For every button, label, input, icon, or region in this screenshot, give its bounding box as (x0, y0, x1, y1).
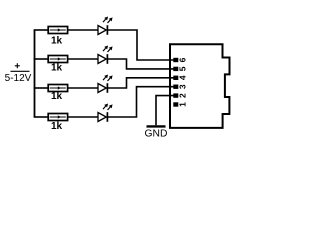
svg-text:5-12V: 5-12V (5, 73, 32, 84)
wire R4 to D4 (68, 116, 99, 118)
wire D3 to pin 4 (107, 78, 174, 88)
svg-text:2: 2 (177, 93, 187, 98)
pin 1 (173, 102, 178, 106)
svg-text:6: 6 (177, 57, 187, 62)
svg-text:4: 4 (177, 75, 187, 80)
node + supply label (11, 63, 30, 71)
svg-text:GND: GND (145, 129, 168, 140)
ground (147, 125, 166, 127)
wire bus to R1 (34, 29, 49, 31)
wire D4 to pin 3 (107, 87, 174, 117)
node +V bus (34, 30, 36, 117)
svg-text:1k: 1k (51, 36, 63, 47)
wire D2 to pin 5 (107, 59, 174, 69)
resistor R4 (48, 114, 67, 121)
svg-text:1k: 1k (51, 121, 63, 132)
pin 2 (173, 93, 178, 97)
wire R1 to D1 (68, 29, 99, 31)
LED D3 (98, 74, 113, 92)
connector J1 outline (170, 44, 230, 128)
svg-text:1k: 1k (51, 91, 63, 102)
wire D1 to pin 6 (107, 30, 174, 60)
svg-text:3: 3 (177, 84, 187, 89)
LED D4 (98, 103, 113, 121)
pin 3 (173, 85, 178, 89)
svg-text:5: 5 (177, 66, 187, 71)
LED D1 (98, 16, 113, 34)
wire bus to R3 (34, 87, 49, 89)
wire R3 to D3 (68, 87, 99, 89)
resistor R2 (48, 56, 67, 63)
pin 4 (173, 76, 178, 80)
pin 5 (173, 67, 178, 71)
svg-text:1k: 1k (51, 63, 63, 74)
resistor R1 (48, 27, 67, 34)
LED D2 (98, 45, 113, 63)
wire bus to R2 (34, 58, 49, 60)
resistor R3 (48, 85, 67, 92)
wire R2 to D2 (68, 58, 99, 60)
wire GND to pin 2 (156, 96, 174, 126)
pin 6 (173, 58, 178, 62)
svg-text:1: 1 (177, 102, 187, 107)
wire bus to R4 (34, 116, 49, 118)
